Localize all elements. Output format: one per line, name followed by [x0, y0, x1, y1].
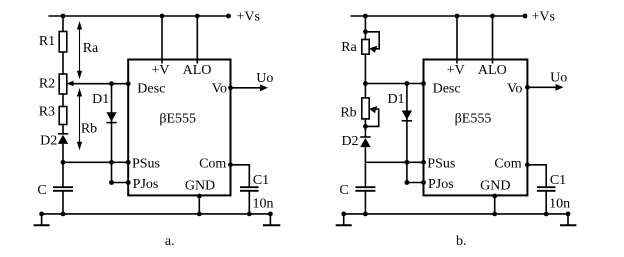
resistor R3	[59, 107, 67, 125]
svg-text:+Vs: +Vs	[237, 9, 260, 24]
pin ALO wire (b)	[492, 16, 494, 64]
svg-text:10n: 10n	[253, 197, 274, 212]
svg-text:C1: C1	[253, 173, 269, 188]
node dots left side (a)	[61, 81, 131, 185]
svg-text:Rb: Rb	[340, 106, 356, 121]
svg-text:+V: +V	[447, 63, 465, 78]
capacitor C1 (b)	[537, 187, 556, 191]
caption a.	[165, 234, 175, 249]
wire D2 to C (b)	[364, 162, 366, 187]
pin +V wire (a)	[161, 16, 163, 64]
svg-text:Uo: Uo	[550, 71, 567, 86]
wire R3 to D2	[62, 125, 64, 134]
diode D1 (b)	[402, 84, 412, 183]
ground left (b)	[336, 214, 352, 225]
node dots bottom rail (b)	[341, 194, 570, 217]
svg-text:Ra: Ra	[341, 40, 357, 55]
wire top rail +Vs (b)	[351, 15, 526, 17]
svg-text:b.: b.	[456, 234, 467, 249]
capacitor C1 (a)	[240, 187, 259, 191]
wire PSus line (b)	[365, 161, 423, 163]
svg-text:βE555: βE555	[455, 112, 492, 127]
svg-text:D2: D2	[40, 134, 57, 149]
op-amp U1 timer box betaE555 (a)	[128, 60, 230, 196]
svg-text:D1: D1	[92, 92, 109, 107]
ground left (a)	[34, 214, 50, 225]
pin GND wire (b)	[494, 195, 496, 214]
svg-text:D2: D2	[341, 134, 358, 149]
svg-text:10n: 10n	[549, 197, 570, 212]
wire Rb to D2 (b)	[364, 119, 366, 137]
svg-text:PJos: PJos	[133, 177, 159, 192]
svg-text:D1: D1	[387, 92, 404, 107]
node dots bottom rail (a)	[39, 194, 273, 217]
svg-text:ALO: ALO	[183, 63, 212, 78]
potentiometer R2	[59, 74, 73, 94]
wire PJos line (b)	[407, 182, 424, 184]
pin Vo output arrow Uo (a)	[231, 84, 269, 91]
dimension arrow Rb (a)	[77, 88, 82, 150]
wire R1 to R2	[62, 52, 64, 74]
caption b.	[456, 234, 467, 249]
pin GND wire (a)	[198, 195, 200, 214]
svg-text:Ra: Ra	[83, 41, 99, 56]
svg-text:C: C	[339, 183, 348, 198]
svg-text:GND: GND	[480, 179, 510, 194]
wire Desc line (a)	[67, 83, 128, 85]
svg-text:Com: Com	[494, 157, 521, 172]
svg-text:Com: Com	[199, 157, 226, 172]
wire top rail +Vs (a)	[49, 15, 229, 17]
wire left branch top (b)	[364, 16, 366, 40]
svg-text:ALO: ALO	[478, 63, 507, 78]
svg-text:R2: R2	[39, 77, 55, 92]
wire PJos line (a)	[112, 182, 129, 184]
capacitor C (a)	[53, 187, 73, 191]
pin Com wire to C1 (a)	[231, 165, 250, 187]
svg-text:Vo: Vo	[212, 82, 227, 97]
svg-text:Rb: Rb	[81, 122, 97, 137]
diode D2	[58, 134, 68, 163]
pin labels inside box (b)	[427, 63, 522, 194]
svg-text:Vo: Vo	[507, 82, 522, 97]
svg-text:C1: C1	[550, 173, 566, 188]
node dots left side (b)	[363, 81, 426, 185]
svg-text:+Vs: +Vs	[532, 9, 555, 24]
svg-text:Desc: Desc	[433, 82, 461, 97]
diode D2 (b)	[360, 137, 370, 162]
svg-text:C: C	[37, 183, 46, 198]
resistor R1	[59, 32, 67, 53]
pin +V wire (b)	[456, 16, 458, 64]
svg-text:PSus: PSus	[132, 157, 160, 172]
op-amp U2 timer box betaE555 (b)	[424, 60, 528, 196]
diode D1 (a)	[106, 84, 116, 183]
potentiometer Rb (b, rheostat)	[362, 98, 379, 127]
wire bottom rail (b)	[344, 213, 568, 215]
wire Desc line (b)	[365, 83, 423, 85]
wire PSus line (a)	[63, 161, 128, 163]
svg-text:PJos: PJos	[428, 177, 454, 192]
svg-text:Desc: Desc	[137, 82, 165, 97]
dimension arrow Ra (a)	[77, 21, 82, 79]
svg-text:R1: R1	[39, 34, 55, 49]
svg-text:GND: GND	[185, 179, 215, 194]
net label +Vs (b)	[532, 9, 555, 24]
pin Com wire to C1 (b)	[527, 165, 546, 187]
wire left branch top (a)	[62, 16, 64, 32]
svg-text:Uo: Uo	[256, 71, 273, 86]
svg-text:+V: +V	[151, 63, 169, 78]
pin Vo output arrow Uo (b)	[527, 84, 563, 91]
svg-text:βE555: βE555	[159, 112, 196, 127]
node junction dots top rail (b)	[363, 14, 527, 19]
node junction dots top rail (a)	[61, 14, 231, 19]
wire D2 to C (a)	[62, 162, 64, 187]
svg-text:R3: R3	[39, 105, 55, 120]
pin ALO wire (a)	[196, 16, 198, 64]
ground right (b)	[560, 214, 576, 225]
wire bottom rail (a)	[42, 213, 271, 215]
wire Ra to Rb (b)	[364, 54, 366, 98]
pin labels inside box (a)	[132, 63, 227, 194]
ground right (a)	[263, 214, 280, 225]
svg-text:a.: a.	[165, 234, 175, 249]
potentiometer Ra (b, rheostat)	[362, 32, 379, 54]
capacitor C (b)	[355, 187, 375, 191]
net label +Vs (a)	[237, 9, 260, 24]
wire R2 to R3	[62, 94, 64, 107]
svg-text:PSus: PSus	[427, 157, 455, 172]
